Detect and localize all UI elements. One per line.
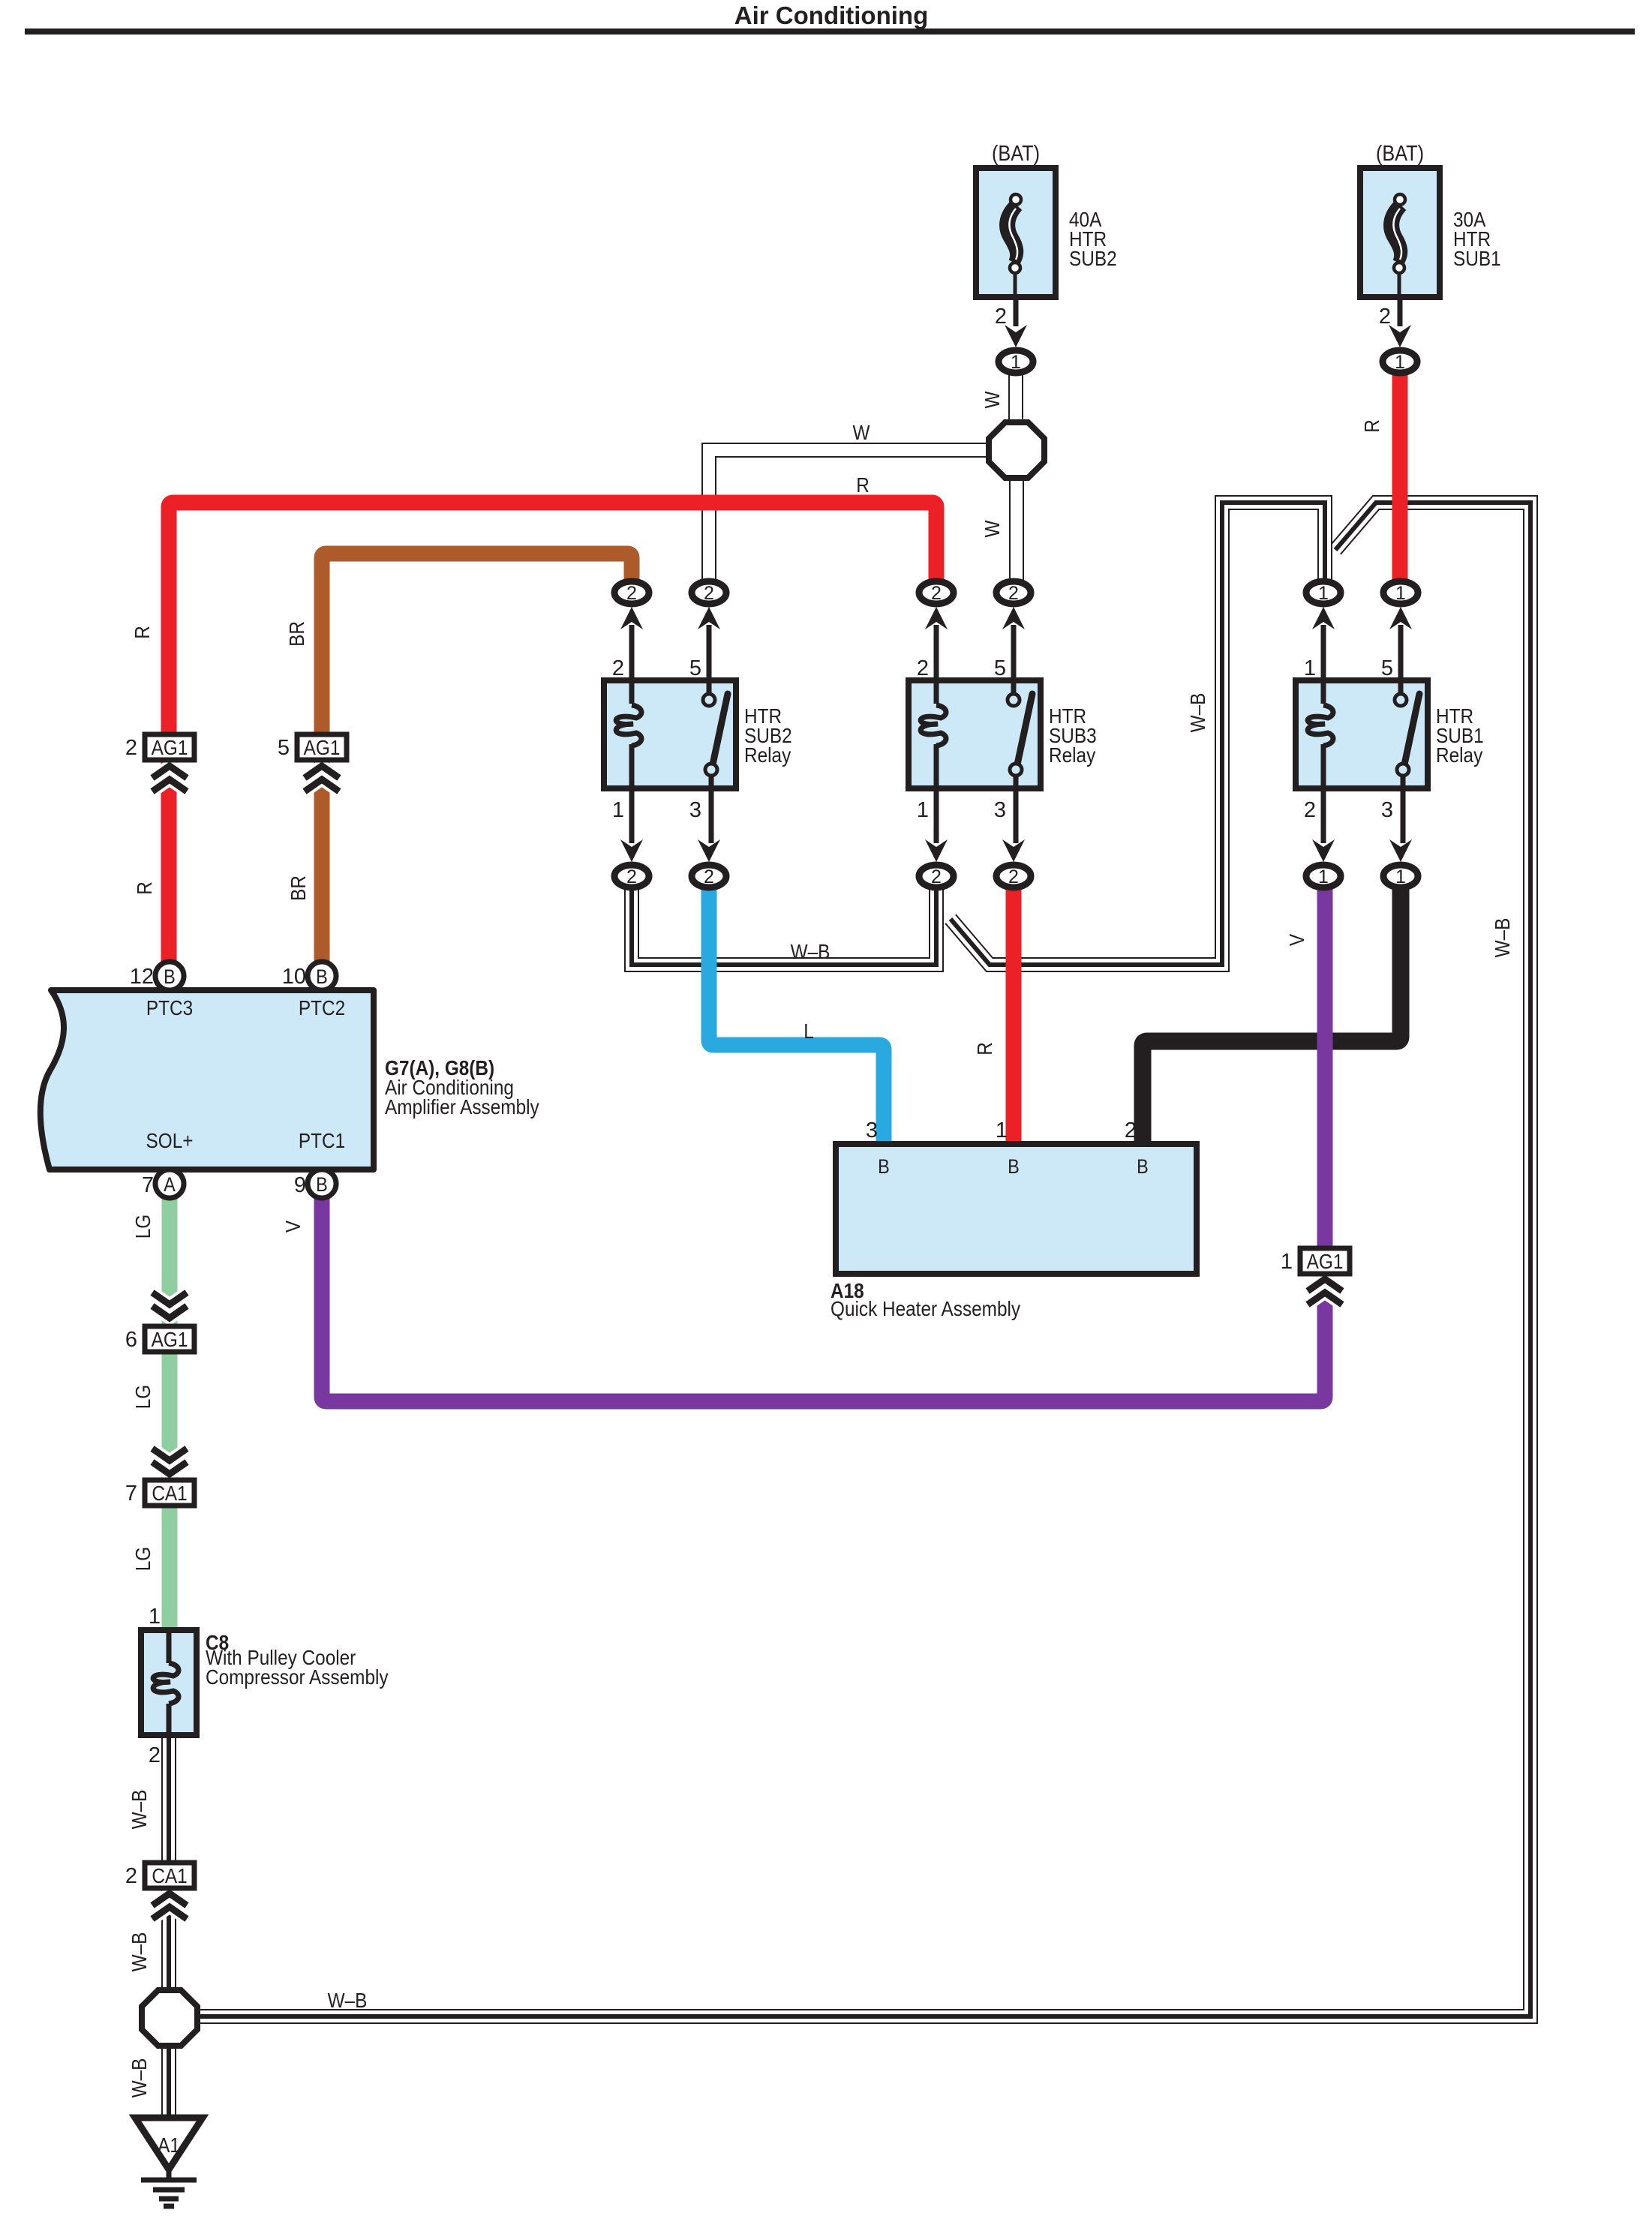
svg-text:3: 3 (689, 798, 701, 822)
svg-text:AG1: AG1 (1307, 1249, 1344, 1273)
svg-text:AG1: AG1 (304, 735, 341, 759)
svg-text:SUB1: SUB1 (1453, 246, 1501, 270)
svg-text:Relay: Relay (1049, 743, 1096, 767)
svg-text:PTC1: PTC1 (299, 1128, 345, 1152)
svg-text:1: 1 (1011, 352, 1021, 373)
svg-text:PTC2: PTC2 (299, 995, 345, 1019)
svg-text:AG1: AG1 (152, 1327, 188, 1351)
svg-text:BR: BR (284, 621, 308, 647)
svg-text:2: 2 (995, 305, 1007, 329)
svg-text:5: 5 (994, 656, 1006, 680)
svg-text:Quick Heater Assembly: Quick Heater Assembly (831, 1296, 1021, 1320)
svg-text:A1: A1 (158, 2133, 180, 2157)
svg-text:3: 3 (994, 798, 1006, 822)
svg-text:PTC3: PTC3 (146, 995, 193, 1019)
svg-text:Compressor Assembly: Compressor Assembly (206, 1665, 389, 1689)
svg-text:7: 7 (142, 1173, 154, 1197)
svg-text:2: 2 (931, 866, 942, 887)
svg-text:2: 2 (125, 1864, 137, 1888)
svg-text:2: 2 (704, 866, 714, 887)
svg-text:R: R (132, 881, 156, 895)
svg-text:R: R (856, 473, 870, 497)
svg-text:2: 2 (1008, 583, 1019, 604)
svg-text:1: 1 (917, 798, 929, 822)
svg-text:2: 2 (917, 656, 929, 680)
svg-text:1: 1 (1395, 583, 1406, 604)
svg-text:W–B: W–B (127, 1790, 151, 1830)
svg-text:1: 1 (1318, 583, 1329, 604)
svg-text:7: 7 (125, 1482, 137, 1506)
svg-text:2: 2 (125, 736, 137, 760)
svg-text:W–B: W–B (127, 1932, 151, 1972)
svg-text:2: 2 (931, 583, 942, 604)
svg-text:W–B: W–B (791, 939, 831, 963)
svg-text:W: W (980, 520, 1004, 537)
svg-text:5: 5 (278, 736, 290, 760)
svg-text:2: 2 (626, 583, 637, 604)
svg-text:V: V (1284, 933, 1308, 946)
svg-text:5: 5 (1381, 656, 1393, 680)
svg-text:3: 3 (866, 1119, 878, 1143)
svg-text:W–B: W–B (127, 2058, 151, 2098)
svg-text:1: 1 (1281, 1250, 1293, 1274)
svg-text:L: L (803, 1019, 814, 1043)
svg-text:9: 9 (294, 1173, 306, 1197)
svg-text:1: 1 (1304, 656, 1316, 680)
svg-text:(BAT): (BAT) (992, 140, 1040, 165)
svg-text:5: 5 (689, 656, 701, 680)
svg-text:1: 1 (996, 1119, 1008, 1143)
svg-text:LG: LG (131, 1385, 155, 1409)
svg-text:W: W (980, 391, 1004, 408)
svg-text:12: 12 (130, 965, 154, 989)
svg-text:(BAT): (BAT) (1376, 140, 1424, 165)
svg-text:2: 2 (1304, 798, 1316, 822)
svg-text:B: B (1137, 1156, 1149, 1179)
svg-text:W: W (853, 420, 870, 444)
svg-text:A: A (164, 1174, 176, 1197)
svg-text:B: B (164, 966, 176, 989)
svg-text:SUB2: SUB2 (1069, 246, 1117, 270)
svg-text:2: 2 (704, 583, 714, 604)
svg-text:CA1: CA1 (152, 1863, 187, 1887)
svg-text:6: 6 (125, 1328, 137, 1352)
svg-text:B: B (878, 1156, 890, 1179)
svg-text:Air Conditioning: Air Conditioning (734, 2, 928, 29)
svg-text:1: 1 (149, 1605, 161, 1629)
svg-text:1: 1 (1318, 866, 1329, 887)
svg-text:CA1: CA1 (152, 1481, 187, 1505)
svg-text:SOL+: SOL+ (146, 1128, 194, 1152)
svg-text:W–B: W–B (328, 1988, 368, 2012)
svg-text:R: R (1359, 419, 1383, 433)
svg-text:2: 2 (612, 656, 624, 680)
svg-text:Amplifier Assembly: Amplifier Assembly (385, 1094, 540, 1119)
svg-text:AG1: AG1 (152, 735, 188, 759)
svg-text:1: 1 (1395, 866, 1406, 887)
svg-text:2: 2 (626, 866, 637, 887)
svg-text:2: 2 (1125, 1119, 1137, 1143)
svg-text:LG: LG (131, 1547, 155, 1571)
svg-text:W–B: W–B (1490, 918, 1514, 958)
svg-text:3: 3 (1381, 798, 1393, 822)
svg-text:B: B (316, 1174, 328, 1197)
svg-text:2: 2 (1008, 866, 1019, 887)
svg-text:10: 10 (282, 965, 306, 989)
svg-text:W–B: W–B (1185, 693, 1209, 733)
svg-text:V: V (281, 1220, 305, 1233)
svg-text:B: B (316, 966, 328, 989)
svg-text:Relay: Relay (1436, 743, 1483, 767)
svg-text:BR: BR (286, 875, 310, 901)
svg-text:2: 2 (149, 1743, 161, 1767)
svg-text:R: R (972, 1042, 996, 1055)
svg-text:1: 1 (1395, 352, 1405, 373)
svg-text:Relay: Relay (744, 743, 791, 767)
svg-text:LG: LG (131, 1215, 155, 1239)
svg-text:R: R (130, 626, 154, 639)
svg-text:B: B (1008, 1156, 1020, 1179)
svg-text:1: 1 (612, 798, 624, 822)
svg-text:2: 2 (1379, 305, 1391, 329)
